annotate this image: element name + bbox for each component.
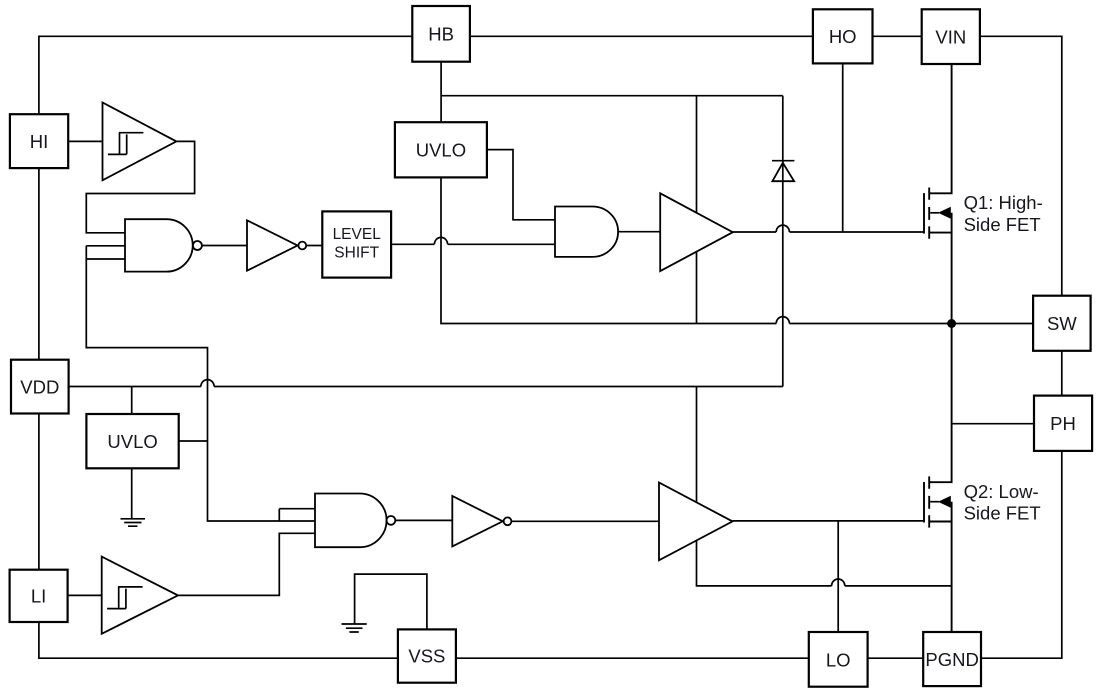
svg-text:LI: LI [31, 586, 46, 607]
ground symbol G1 under UVLO2 [121, 519, 146, 526]
svg-text:LEVEL: LEVEL [333, 226, 382, 243]
nand NAND1 output bubble [193, 241, 202, 250]
svg-text:LO: LO [826, 649, 851, 670]
wire LI to schmitt ST2 [68, 594, 102, 596]
transistor Q2 channel bar segments [928, 476, 930, 527]
svg-text:VDD: VDD [20, 376, 59, 397]
svg-text:SHIFT: SHIFT [334, 245, 379, 262]
diode D1 vertical wire (VDD to HB bootstrap) [782, 96, 784, 387]
wire NAND1 input fork down to UVLO2 net and NAND2 middle input [86, 246, 315, 521]
wire BUF2 bottom rail to PGND net with hop over LO vertical [697, 541, 952, 586]
transistor Q1 source stub and body tie down to SW junction [929, 213, 951, 324]
transistor Q2 drain wire from SW junction [929, 324, 951, 483]
wire PH to Q2 drain line [952, 423, 1034, 425]
wire UVLO2 output to UVLO-ok vertical [179, 440, 208, 442]
wire VDD line to bootstrap diode with hop over UVLO-ok vertical [69, 380, 783, 387]
wire UVLO2 bottom stem to ground [131, 468, 133, 518]
wire VDD to UVLO2 stem [131, 387, 133, 415]
border top segment HB to HO [470, 35, 813, 37]
wire NAND2 input1 stub and tie [279, 509, 315, 521]
svg-text:PH: PH [1050, 413, 1076, 434]
wire AND1 to buffer BUF1 [618, 231, 660, 233]
svg-text:Side FET: Side FET [964, 503, 1041, 524]
wire BUF1 output to Q1 gate with hop over diode vertical [733, 225, 924, 232]
svg-text:Q1: High-: Q1: High- [964, 192, 1043, 213]
wire UVLO1 output to AND1 input1 [487, 150, 555, 220]
wire INV1 to LEVEL SHIFT [306, 245, 322, 247]
border right segment SW to PH [1061, 351, 1063, 396]
diode D1 cathode bar [772, 160, 794, 162]
nand NAND2 output bubble [387, 516, 396, 525]
svg-text:Side FET: Side FET [964, 214, 1041, 235]
border top segment HO to VIN [873, 35, 922, 37]
block UVLO1 (high side) [395, 122, 487, 177]
border bottom segment LO to VSS [456, 657, 809, 659]
transistor Q1 gate bar [923, 193, 925, 234]
pin box LO [809, 632, 868, 687]
wire ST1 output feedback loop to NAND1 input1 [86, 141, 194, 232]
transistor Q2 source stub down to PGND [929, 502, 951, 632]
transistor Q1 drain wire from VIN [929, 64, 951, 193]
border top-right corner down to SW [980, 36, 1062, 295]
border bottom segment PGND to LO [868, 657, 924, 659]
border left segment VDD to HI [38, 168, 40, 360]
svg-text:VSS: VSS [408, 646, 445, 667]
inverter INV2 bubble [504, 517, 512, 525]
block LEVEL SHIFT [322, 211, 391, 277]
inverter INV2 triangle [452, 496, 503, 546]
wire BUF1 top rail to HB net [696, 96, 698, 213]
pin box LI [10, 570, 68, 622]
wire HO down to gate line [842, 63, 844, 232]
wire VSS up and over to ground G2 [355, 574, 427, 629]
pin box PH [1034, 396, 1092, 451]
wire INV2 to buffer BUF2 [511, 520, 659, 522]
ground symbol G2 near VSS [342, 624, 367, 632]
pin box VDD [11, 360, 69, 414]
wire NAND1 input2 stub [86, 245, 125, 247]
wire HB to UVLO1 [440, 62, 442, 122]
wire NAND1 input3 stub [86, 258, 125, 260]
pin box VIN [922, 9, 980, 64]
svg-text:UVLO: UVLO [107, 431, 157, 452]
svg-text:PGND: PGND [925, 649, 978, 670]
and gate AND1 [555, 207, 618, 257]
inverter INV1 bubble [298, 242, 306, 250]
pin box PGND [923, 632, 981, 686]
pin box SW [1033, 296, 1091, 351]
border top-left segment with corner down left side [39, 36, 412, 114]
block UVLO2 (low side) [86, 414, 178, 468]
nand gate NAND1 [125, 219, 193, 271]
pin box VSS [398, 629, 456, 682]
wire BUF2 top rail to VDD line [696, 387, 698, 503]
schmitt ST1 hysteresis glyph [108, 133, 143, 155]
pin box HI [10, 114, 68, 168]
schmitt trigger ST1 (HI input) [103, 103, 177, 181]
wire HI to schmitt ST1 [68, 140, 102, 142]
schmitt trigger ST2 (LI input) [102, 557, 178, 634]
border right segment PH to bottom corner and to PGND [981, 451, 1062, 658]
wire LEVEL SHIFT output to AND1 input2 with hop over HB-UVLO vertical [391, 237, 555, 244]
schmitt ST2 hysteresis glyph [107, 587, 143, 609]
wire UVLO1 bottom down to SW line and SW line to SW pin with hop and junction [441, 177, 1033, 323]
svg-text:UVLO: UVLO [416, 139, 466, 160]
border left segment LI to VDD [38, 414, 40, 570]
wire NAND1 to inverter INV1 [202, 245, 247, 247]
pin box HB [412, 6, 470, 62]
svg-text:VIN: VIN [935, 27, 966, 48]
wire NAND2 to inverter INV2 [395, 519, 452, 521]
transistor Q1 body arrow [930, 212, 939, 214]
transistor Q2 gate bar [923, 482, 925, 523]
wire HB net horizontal to diode cathode [441, 95, 783, 97]
wire BUF1 bottom rail to SW line [696, 252, 698, 324]
buffer BUF2 low-side driver [659, 483, 733, 561]
transistor Q2 body arrow [930, 501, 939, 503]
pin box HO [813, 9, 873, 63]
buffer BUF1 high-side driver [660, 193, 733, 271]
diode D1 triangle [772, 163, 794, 181]
svg-text:SW: SW [1047, 313, 1077, 334]
svg-text:HI: HI [30, 131, 49, 152]
svg-text:HB: HB [428, 24, 454, 45]
svg-text:HO: HO [829, 26, 857, 47]
border bottom-left corner up to LI [39, 622, 398, 658]
wire ST2 output up to NAND2 input3 [178, 533, 315, 595]
nand gate NAND2 [315, 494, 387, 548]
transistor Q1 channel bar segments [928, 188, 930, 239]
svg-text:Q2: Low-: Q2: Low- [964, 481, 1039, 502]
wire BUF2 output to Q2 gate [733, 520, 925, 522]
junction dot SW node [947, 319, 956, 328]
inverter INV1 triangle [247, 220, 298, 270]
wire LO vertical to gate line [837, 521, 839, 632]
